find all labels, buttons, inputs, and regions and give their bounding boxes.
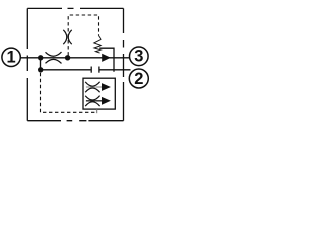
compensator flow arrow head (102, 54, 111, 62)
throttle row 1 arrow head (102, 83, 111, 91)
wire branch vertical x=40.5 (40, 58, 42, 70)
pilot line dashed (up from node B, across, down to spring) (68, 15, 98, 56)
enclosure bottom edge (long-dash) (27, 120, 123, 122)
enclosure top edge (long-dash) (27, 7, 123, 9)
wire lower line y=69.8 left segment (41, 69, 91, 71)
blocked-end bar 2 (compensator box lower-left stub) (98, 67, 100, 73)
port circle 2 (129, 69, 148, 88)
check/throttle box (83, 78, 115, 109)
svg-text:1: 1 (7, 48, 16, 66)
throttle row 2 shaft (86, 100, 103, 102)
drain stub from check box bottom (gray) (96, 109, 98, 113)
svg-text:2: 2 (134, 70, 143, 88)
enclosure left edge (long-dash) (26, 8, 28, 120)
throttle row 2 arrow head (102, 97, 111, 105)
node junction dot B (68,57.8) (65, 55, 70, 60)
fixed orifice on main line (46, 52, 62, 56)
enclosure right edge (long-dash) (123, 8, 125, 120)
port circle 1 (2, 48, 20, 66)
port circle 3 (130, 47, 149, 66)
throttle row 1 shaft (gray) (86, 86, 103, 88)
compensator box (top + right edges) (99, 48, 114, 72)
node junction dot A (40.5,57.8) (38, 55, 43, 60)
blocked-end bar 1 (90, 67, 92, 73)
pilot throttle arcs on dashed line (63, 30, 67, 44)
drain line dashed (down from node C, across to check box stub) (41, 73, 96, 113)
throttle row 1 arcs (85, 82, 99, 86)
wire lower line y=69.8 right segment to port 2 (99, 69, 131, 71)
main line port1 to port3 (21, 57, 130, 59)
throttle row 2 arcs (85, 96, 99, 100)
node junction dot C (40.5,69.8) (38, 67, 43, 72)
spring (compensator) (94, 35, 102, 53)
svg-text:3: 3 (134, 48, 143, 66)
